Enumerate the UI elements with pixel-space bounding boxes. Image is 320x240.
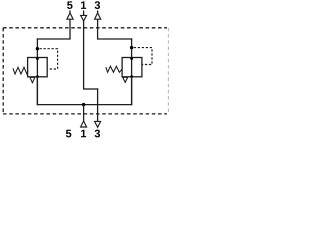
left valve pilot dashed line — [40, 49, 58, 69]
label port 1 top — [81, 1, 86, 9]
wire port1 down — [83, 10, 85, 89]
label port 3 bottom — [95, 130, 100, 138]
wire port1 jog horizontal — [83, 88, 98, 90]
wire right valve outlet to rail — [131, 77, 133, 105]
enclosure dashed boundary top — [3, 27, 167, 29]
wire port5 down — [69, 19, 71, 39]
node pilot takeoff left valve — [36, 47, 39, 50]
wire jog down to bottom port 3 — [97, 88, 99, 121]
wire stub above port 5 arrow — [69, 10, 71, 13]
bottom port 3 arrow (down, open) — [95, 121, 101, 127]
wire port3 horizontal to right valve — [97, 38, 132, 40]
wire port5 horizontal to left valve — [37, 38, 71, 40]
left valve drain triangle — [30, 77, 35, 82]
node right valve top seat — [130, 57, 133, 60]
node left valve top seat — [36, 57, 39, 60]
right valve drain triangle — [123, 77, 128, 82]
enclosure dashed boundary left — [2, 28, 4, 114]
label port 1 bottom — [81, 130, 86, 138]
label port 3 top — [95, 1, 100, 9]
wire bottom rail — [37, 104, 133, 106]
left valve body — [28, 58, 48, 77]
enclosure dashed boundary bottom — [3, 113, 167, 115]
node pilot takeoff right valve — [130, 46, 133, 49]
enclosure dashed boundary right — [167, 28, 169, 114]
node bottom port1 junction — [82, 103, 85, 106]
node left valve bottom seat — [36, 75, 39, 78]
left valve spring — [13, 67, 28, 74]
wire port3 down — [97, 19, 99, 39]
right valve through line — [131, 58, 133, 105]
wire left valve inlet vertical — [36, 38, 38, 57]
node right valve bottom seat — [130, 75, 133, 78]
right valve body — [122, 58, 142, 77]
right valve spring — [106, 66, 123, 72]
label port 5 top — [67, 1, 72, 9]
port 1 arrow (down, open) — [81, 15, 87, 21]
wire left valve outlet to rail — [36, 77, 38, 105]
label port 5 bottom — [66, 130, 71, 138]
port 3 arrow (up, open) — [95, 13, 101, 19]
wire right valve inlet vertical — [131, 38, 133, 57]
left valve through line — [36, 58, 38, 105]
port 5 arrow (up, open) — [67, 13, 73, 19]
wire stub above port 3 arrow — [97, 10, 99, 13]
right valve pilot dashed line — [134, 48, 152, 65]
wire bottom port1 down — [83, 105, 85, 122]
bottom port 1 arrow (up, open) — [81, 121, 87, 127]
